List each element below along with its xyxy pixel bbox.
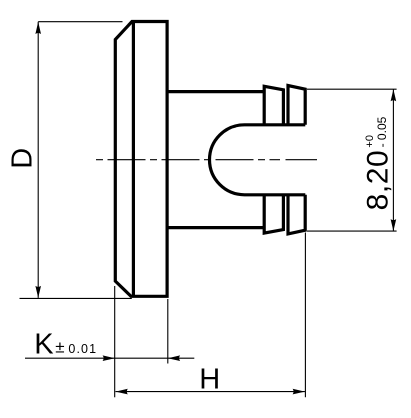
- dimension K line: [25, 357, 194, 359]
- arrow K right: [103, 355, 115, 361]
- barb ring 2 bottom: [288, 195, 305, 234]
- body top edge: [167, 90, 264, 93]
- dimension 8.20 top extension: [307, 88, 397, 90]
- arrow K left: [168, 355, 180, 361]
- svg-text:D: D: [7, 148, 39, 169]
- arrow H left: [116, 389, 128, 395]
- barb ring 2 top: [288, 86, 305, 125]
- arrow 8.20 up: [391, 89, 397, 101]
- flange outline: [115, 22, 167, 297]
- arrow D up: [35, 22, 41, 34]
- svg-text:K: K: [34, 329, 54, 361]
- barb ring 1 top: [264, 86, 283, 125]
- flange chamfer edge line: [132, 22, 135, 297]
- body bottom edge: [167, 226, 264, 229]
- svg-text:8,20: 8,20: [361, 150, 394, 211]
- arrow 8.20 down: [391, 219, 397, 231]
- svg-text:0.01: 0.01: [68, 342, 97, 356]
- dimension D bottom extension: [20, 297, 132, 299]
- centerline: [96, 159, 317, 161]
- arrow D down: [35, 286, 41, 298]
- U-slot: [210, 125, 306, 195]
- barb ring 1 bottom: [264, 195, 283, 233]
- svg-text:±: ±: [55, 338, 64, 357]
- dimension H line: [116, 391, 305, 393]
- svg-text:H: H: [199, 363, 220, 395]
- svg-text:- 0.05: - 0.05: [375, 116, 389, 147]
- dimension K left extension: [114, 286, 116, 397]
- dimension D line: [37, 22, 39, 298]
- dimension D top extension: [38, 21, 122, 23]
- dimension H right extension: [304, 233, 306, 398]
- arrow H right: [293, 389, 305, 395]
- dimension K right extension: [167, 299, 169, 364]
- dimension 8.20 bottom extension: [307, 230, 397, 232]
- dimension 8.20 line: [392, 89, 394, 231]
